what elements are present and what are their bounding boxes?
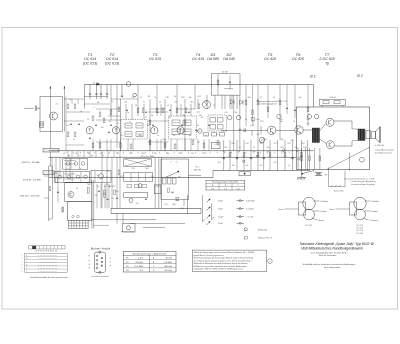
svg-text:OC 620: OC 620	[305, 225, 313, 227]
svg-text:o: o	[129, 121, 130, 123]
svg-text:0,4: 0,4	[224, 188, 227, 190]
svg-text:L3: L3	[63, 153, 65, 155]
svg-text:-- ---- ---- --- ---- ---- --: -- ---- ---- --- ---- ---- ----	[38, 271, 57, 273]
svg-text:Betriebsspannungen bei neuwert: Betriebsspannungen bei neuwertiger Batte…	[194, 257, 253, 260]
svg-text:-- ---- ---- --- ---- ---- --: -- ---- ---- --- ---- ---- ----	[38, 258, 57, 260]
svg-text:5n: 5n	[143, 102, 145, 104]
svg-text:1: 1	[21, 255, 22, 257]
svg-text:10k: 10k	[279, 121, 282, 123]
svg-text:45 kHz: 45 kHz	[166, 258, 172, 260]
svg-text:20k: 20k	[256, 134, 259, 136]
svg-text:OC 620: OC 620	[264, 57, 276, 61]
svg-text:5k: 5k	[69, 99, 71, 101]
svg-text:(OC 613): (OC 613)	[83, 61, 97, 65]
svg-text:vorbehalten. MW bei 1 MHz, UKW: vorbehalten. MW bei 1 MHz, UKW bei 94 MH…	[194, 268, 244, 271]
svg-text:25: 25	[169, 117, 171, 119]
svg-text:R34: R34	[259, 143, 262, 145]
svg-text:Basis: Basis	[279, 209, 284, 211]
svg-text:5n: 5n	[216, 134, 218, 136]
svg-text:4k7: 4k7	[190, 102, 193, 104]
svg-text:470: 470	[260, 165, 263, 167]
svg-text:0,5µF: 0,5µF	[218, 217, 224, 219]
svg-text:OC 615: OC 615	[149, 57, 161, 61]
svg-text:1k5: 1k5	[266, 151, 269, 153]
svg-text:1k: 1k	[253, 147, 255, 149]
svg-text:FM 87,5 - 100 MHz: FM 87,5 - 100 MHz	[22, 162, 41, 164]
svg-text:Lautstärkeregler-Anzapfung: Lautstärkeregler-Anzapfung	[351, 180, 376, 183]
svg-text:10: 10	[205, 135, 207, 137]
svg-text:720 kHz: 720 kHz	[164, 270, 172, 272]
svg-text:5: 5	[21, 268, 22, 270]
svg-text:15: 15	[167, 105, 169, 107]
svg-text:-- ---- ---- --- ---- ---- --: -- ---- ---- --- ---- ---- ----	[38, 255, 57, 257]
svg-text:T8: T8	[76, 188, 78, 190]
svg-text:8k2: 8k2	[281, 147, 284, 149]
svg-text:(OC 613): (OC 613)	[105, 61, 119, 65]
svg-text:R48: R48	[172, 204, 175, 206]
svg-text:Drucktastenschalter: Drucktastenschalter	[93, 224, 109, 227]
svg-text:Schaltbild wird bei laufenden: Schaltbild wird bei laufenden technische…	[303, 263, 356, 266]
svg-text:KW 5,95 - 6,2 MHz: KW 5,95 - 6,2 MHz	[23, 180, 41, 182]
svg-text:10n: 10n	[124, 102, 127, 104]
svg-text:25µF: 25µF	[218, 223, 224, 225]
svg-text:0,1: 0,1	[223, 151, 226, 153]
svg-text:C33: C33	[190, 153, 193, 155]
svg-text:Meßpunkt: Meßpunkt	[258, 228, 268, 231]
svg-text:2x 30: 2x 30	[93, 83, 99, 85]
svg-text:JF = 10,7 MHz: JF = 10,7 MHz	[141, 156, 155, 158]
svg-text:50µ: 50µ	[294, 147, 297, 149]
svg-text:2k: 2k	[111, 101, 113, 103]
svg-text:L6: L6	[79, 169, 81, 171]
svg-text:30: 30	[174, 96, 176, 98]
svg-text:6,8 MHz: 6,8 MHz	[164, 262, 172, 264]
svg-text:Leistg. Abmessungen: Leistg. Abmessungen	[375, 149, 394, 152]
svg-text:470 kHz: 470 kHz	[135, 262, 143, 264]
svg-text:5k6: 5k6	[188, 135, 191, 137]
svg-text:ohne Signal. Spannungswerte ge: ohne Signal. Spannungswerte gelten nur f…	[194, 259, 252, 262]
svg-text:5p: 5p	[151, 115, 153, 117]
svg-text:0,5: 0,5	[67, 125, 70, 127]
svg-text:OA 645: OA 645	[223, 57, 235, 61]
svg-text:1k: 1k	[159, 102, 161, 104]
svg-text:R31: R31	[231, 143, 234, 145]
svg-text:460 kHz: 460 kHz	[194, 169, 201, 171]
svg-text:120: 120	[303, 147, 306, 149]
svg-text:3k3: 3k3	[232, 165, 235, 167]
svg-text:Kollektor: Kollektor	[372, 200, 380, 203]
svg-text:gegen Masse (Chassis) gemessen: gegen Masse (Chassis) gemessen.	[194, 255, 225, 257]
svg-text:0,5: 0,5	[239, 147, 242, 149]
svg-text:10µF: 10µF	[218, 209, 224, 211]
svg-text:8k2: 8k2	[252, 151, 255, 153]
svg-text:Drahtfarbentabelle der den: Drahtfarbentabelle der den gezeichneten	[30, 276, 69, 279]
svg-text:Buchse - Ansicht: Buchse - Ansicht	[91, 246, 111, 250]
svg-text:5p: 5p	[127, 112, 129, 114]
svg-text:-- ---- ---- --- ---- ---- --: -- ---- ---- --- ---- ---- ----	[38, 268, 57, 270]
svg-text:Meßwert W, nF: Meßwert W, nF	[258, 237, 273, 240]
svg-text:1n5: 1n5	[162, 139, 165, 141]
svg-text:Gesamtstromaufnahme ca. 9 mA: Gesamtstromaufnahme ca. 9 mA	[344, 177, 375, 180]
svg-text:1k2: 1k2	[298, 97, 301, 99]
svg-text:0,15: 0,15	[236, 188, 240, 190]
svg-text:f = 1000 Hz: f = 1000 Hz	[374, 145, 384, 147]
svg-text:20k: 20k	[247, 97, 250, 99]
svg-text:R12: R12	[181, 97, 184, 99]
svg-text:Betriebsspannungen u. Abgleich: Betriebsspannungen u. Abgleichwerte	[133, 253, 167, 256]
svg-text:vorm. Nachfolgebetrieb F. W. S: vorm. Nachfolgebetrieb F. W. Stern Werk …	[310, 251, 348, 254]
svg-text:B 1: B 1	[310, 74, 315, 78]
svg-text:OC 615: OC 615	[192, 57, 204, 61]
svg-text:-- ---- ---- --- ---- ---- --: -- ---- ---- --- ---- ---- ----	[38, 265, 57, 267]
svg-text:C12: C12	[131, 97, 134, 99]
svg-text:5k6: 5k6	[263, 139, 266, 141]
svg-text:Meßbereich umschalten. Angaben: Meßbereich umschalten. Angaben ohne Gewä…	[194, 265, 247, 268]
svg-text:für gehörrichtige Regelung: für gehörrichtige Regelung	[351, 183, 375, 186]
svg-text:1,25: 1,25	[211, 188, 215, 190]
svg-text:5,6 V: 5,6 V	[138, 258, 143, 260]
svg-text:C47: C47	[273, 143, 276, 145]
svg-text:Transistor-Kleinstgerät „Spatz: Transistor-Kleinstgerät „Spatz Jolly“ Ty…	[299, 242, 374, 246]
svg-text:C41: C41	[214, 144, 217, 146]
svg-text:Kollektor: Kollektor	[321, 200, 329, 203]
svg-text:-- ---- ---- --- ---- ---- --: -- ---- ---- --- ---- ---- ----	[38, 261, 57, 263]
svg-text:C44: C44	[245, 143, 248, 145]
svg-text:8k: 8k	[201, 117, 203, 119]
svg-text:R22: R22	[203, 153, 206, 155]
svg-text:1k5: 1k5	[274, 162, 277, 164]
svg-text:50µF: 50µF	[218, 201, 224, 203]
svg-text:120: 120	[218, 162, 221, 164]
svg-text:30: 30	[135, 105, 137, 107]
svg-text:R46: R46	[156, 186, 159, 188]
svg-text:R37: R37	[287, 143, 290, 145]
svg-text:VEB Mitteldeutsches Rundfunkge: VEB Mitteldeutsches Rundfunkgerätewerk	[301, 247, 363, 251]
svg-text:12: 12	[87, 119, 89, 121]
svg-text:15: 15	[140, 97, 142, 99]
svg-text:0,1 Watt: 0,1 Watt	[246, 208, 254, 211]
svg-text:12: 12	[145, 117, 147, 119]
svg-text:x: x	[94, 107, 95, 109]
svg-text:1k: 1k	[293, 121, 295, 123]
svg-text:1n: 1n	[80, 111, 82, 113]
svg-text:Basis: Basis	[330, 209, 335, 211]
svg-text:OA 685: OA 685	[207, 57, 219, 61]
svg-text:2k: 2k	[154, 97, 156, 99]
svg-text:bei Vollaussteuerg.: bei Vollaussteuerg.	[375, 151, 392, 154]
svg-text:20: 20	[173, 135, 175, 137]
svg-text:50: 50	[238, 151, 240, 153]
svg-text:10n: 10n	[246, 165, 249, 167]
svg-text:nicht abgeändert: nicht abgeändert	[324, 266, 341, 269]
svg-text:1 2 3 4 5 6 7 8 9 10: 1 2 3 4 5 6 7 8 9 10 11 12	[34, 251, 58, 253]
svg-text:3n: 3n	[157, 112, 159, 114]
svg-text:0,1: 0,1	[121, 135, 124, 137]
svg-text:6: 6	[21, 271, 22, 273]
svg-text:OC 604: OC 604	[356, 233, 364, 235]
svg-text:R5: R5	[88, 153, 90, 155]
svg-text:R8: R8	[148, 96, 150, 98]
svg-text:C60: C60	[150, 176, 153, 178]
svg-text:0,1: 0,1	[112, 198, 115, 200]
svg-text:L5: L5	[67, 169, 69, 171]
svg-text:Masse: Masse	[319, 220, 326, 222]
svg-text:3: 3	[21, 261, 22, 263]
svg-text:10k: 10k	[188, 97, 191, 99]
svg-text:8p: 8p	[183, 115, 185, 117]
svg-text:1n: 1n	[185, 112, 187, 114]
svg-text:25: 25	[213, 105, 215, 107]
svg-text:C18: C18	[165, 97, 168, 99]
svg-text:3k: 3k	[109, 121, 111, 123]
svg-text:0,25 Watt: 0,25 Watt	[246, 200, 255, 203]
svg-text:c: c	[26, 261, 27, 263]
svg-text:B5: B5	[117, 153, 119, 155]
svg-text:2n: 2n	[117, 123, 119, 125]
svg-text:R18: R18	[141, 153, 144, 155]
svg-text:d: d	[26, 265, 27, 267]
svg-text:Emitter: Emitter	[321, 210, 328, 213]
svg-text:B 2: B 2	[357, 74, 362, 78]
svg-text:< 0,1 W: < 0,1 W	[246, 216, 253, 219]
svg-text:-Gehäuse: -Gehäuse	[370, 220, 380, 222]
svg-text:Meßwerte in Klammern bei abges: Meßwerte in Klammern bei abgeschaltetem …	[194, 262, 248, 265]
svg-text:Werk für Gerätebau: Werk für Gerätebau	[319, 254, 337, 257]
svg-text:10,7 MHz: 10,7 MHz	[134, 266, 143, 268]
svg-text:10n: 10n	[281, 151, 284, 153]
svg-text:C24: C24	[197, 96, 200, 98]
svg-text:2µ: 2µ	[288, 165, 290, 167]
svg-text:R20: R20	[178, 153, 181, 155]
svg-text:gn: gn	[68, 155, 70, 157]
svg-text:5k: 5k	[197, 125, 199, 127]
svg-text:Ausschalter: Ausschalter	[334, 190, 344, 193]
svg-text:470: 470	[135, 203, 138, 205]
svg-text:4: 4	[21, 265, 22, 267]
svg-text:47k: 47k	[100, 127, 103, 129]
svg-text:1n5: 1n5	[97, 175, 100, 177]
svg-text:6k8: 6k8	[138, 135, 141, 137]
svg-text:4k7: 4k7	[225, 147, 228, 149]
svg-text:OC 620: OC 620	[292, 57, 304, 61]
svg-text:ge: ge	[91, 155, 93, 157]
svg-text:C56 40: C56 40	[329, 97, 336, 99]
svg-text:Gleichspannungen u. Wechselstr: Gleichspannungen u. Wechselstr.	[212, 181, 239, 184]
svg-text:460 kHz: 460 kHz	[164, 266, 172, 268]
svg-text:25: 25	[73, 139, 75, 141]
svg-text:R44: R44	[145, 168, 148, 170]
svg-text:3n: 3n	[157, 135, 159, 137]
svg-text:e: e	[26, 268, 27, 270]
svg-text:C50: C50	[301, 143, 304, 145]
svg-text:2: 2	[21, 258, 22, 260]
svg-text:2k2: 2k2	[234, 112, 237, 114]
svg-text:470: 470	[290, 140, 293, 142]
svg-text:1n: 1n	[97, 186, 99, 188]
svg-text:b: b	[26, 258, 27, 260]
svg-text:0,1: 0,1	[260, 97, 263, 99]
svg-text:C62: C62	[164, 204, 167, 206]
svg-text:25µ: 25µ	[266, 147, 269, 149]
svg-text:C58: C58	[131, 168, 134, 170]
svg-text:Tp: Tp	[325, 61, 329, 65]
svg-text:42 307: 42 307	[222, 72, 229, 74]
svg-text:10n: 10n	[174, 102, 177, 104]
svg-text:MW 520 - 1620 kHz: MW 520 - 1620 kHz	[20, 196, 39, 198]
svg-text:5k: 5k	[273, 97, 275, 99]
svg-text:30: 30	[95, 195, 97, 197]
svg-text:C30: C30	[153, 153, 156, 155]
svg-text:30: 30	[97, 102, 99, 104]
svg-text:von außen gesehen: von außen gesehen	[91, 276, 109, 278]
svg-text:47k: 47k	[224, 112, 227, 114]
svg-text:6k: 6k	[104, 186, 106, 188]
svg-text:Sämtliche Spannungen sind mit: Sämtliche Spannungen sind mit einem Röhr…	[194, 251, 255, 254]
svg-text:2M2: 2M2	[204, 102, 208, 104]
svg-text:C28: C28	[129, 153, 132, 155]
svg-text:80: 80	[147, 125, 149, 127]
svg-text:Emitter: Emitter	[372, 210, 379, 213]
svg-text:2,5: 2,5	[56, 104, 59, 106]
svg-text:R27: R27	[260, 121, 263, 123]
svg-text:B6: B6	[167, 153, 169, 155]
svg-text:C8: C8	[75, 153, 77, 155]
